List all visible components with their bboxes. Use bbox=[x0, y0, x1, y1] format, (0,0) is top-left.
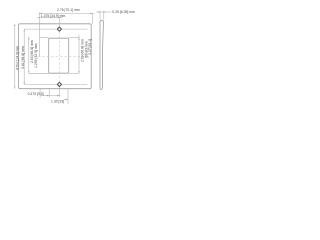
svg-text:1.375 [34.9] mm: 1.375 [34.9] mm bbox=[41, 14, 66, 18]
svg-text:4.50 [114.3] mm: 4.50 [114.3] mm bbox=[15, 46, 19, 70]
svg-text:0.25 [6.35] mm: 0.25 [6.35] mm bbox=[112, 10, 135, 14]
svg-text:1.30 [33]: 1.30 [33] bbox=[51, 100, 64, 104]
svg-text:2.76 [70.1] mm: 2.76 [70.1] mm bbox=[57, 8, 80, 12]
svg-text:3.81 [96.8] mm: 3.81 [96.8] mm bbox=[21, 46, 25, 69]
svg-text:3.27 [83.1]: 3.27 [83.1] bbox=[88, 39, 92, 55]
svg-text:1.295 [32.9] mm: 1.295 [32.9] mm bbox=[34, 43, 38, 68]
svg-text:0.375 [9.5]: 0.375 [9.5] bbox=[28, 92, 44, 96]
